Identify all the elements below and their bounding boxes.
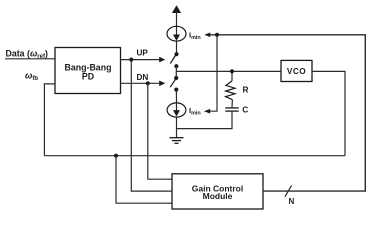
- junction: S2 bottom terminal: [174, 88, 178, 92]
- supply arrow (to VDD): [172, 5, 181, 26]
- block VCO: [281, 60, 312, 81]
- current source I_min (top): [167, 26, 186, 41]
- wire: S1 to S2: [175, 66, 177, 78]
- wire: DN signal with arrowhead: [121, 81, 166, 87]
- label UP: [137, 48, 149, 57]
- junction: S2 top terminal: [174, 76, 178, 80]
- wire: feedback branch into GCM: [116, 156, 172, 204]
- wire: feedback to PD input (left side): [44, 84, 55, 156]
- wire: control branch to bottom current source: [204, 35, 217, 114]
- svg-text:C: C: [242, 105, 248, 115]
- wire: R to C: [231, 100, 233, 108]
- wire: bottom current source to ground: [176, 117, 178, 138]
- current source I_min (bottom): [167, 103, 186, 117]
- wire: DN branch to Gain Control Module: [148, 83, 172, 179]
- ground: [170, 138, 184, 144]
- wire: node to resistor R: [231, 71, 233, 81]
- label: omega_fb feedback input: [25, 70, 38, 82]
- svg-text:VCO: VCO: [287, 66, 306, 76]
- block Bang-Bang PD: [55, 48, 121, 94]
- svg-text:Imin: Imin: [189, 106, 201, 116]
- svg-text:R: R: [243, 85, 249, 95]
- switch S2 (DN) blade: [170, 79, 175, 87]
- junction: feedback tap to GCM: [114, 154, 118, 158]
- block Gain Control Module: [172, 174, 263, 209]
- svg-text:Imin: Imin: [189, 31, 201, 41]
- junction: UP branch node: [129, 58, 133, 62]
- wire: N-bit control bus (GCM to current sources): [204, 33, 365, 192]
- svg-text:DN: DN: [137, 73, 149, 82]
- resistor R: [226, 81, 235, 100]
- wire: S2 to bottom current source: [175, 90, 177, 103]
- svg-text:ωfb: ωfb: [25, 70, 38, 82]
- wire: top current source to switch S1: [176, 41, 178, 54]
- junction: loop filter tap: [230, 69, 234, 73]
- label DN: [137, 73, 149, 82]
- label C: [242, 105, 248, 115]
- label: Data (omega_ref): [6, 48, 48, 60]
- wire: VCO output down right side: [312, 71, 345, 155]
- wire: C to ground rail: [177, 111, 233, 128]
- label R: [243, 85, 249, 95]
- label I_min (bottom): [189, 106, 201, 116]
- wire: UP signal with arrowhead: [121, 57, 166, 63]
- svg-text:UP: UP: [137, 48, 149, 57]
- switch S1 (UP) blade: [170, 55, 175, 64]
- svg-text:PD: PD: [82, 71, 94, 81]
- wire: UP branch to Gain Control Module: [131, 60, 172, 192]
- junction: control branch node: [215, 33, 219, 37]
- wire: Data input: [5, 58, 55, 60]
- svg-text:Data (ωref): Data (ωref): [6, 48, 48, 60]
- junction: DN branch node: [146, 81, 150, 85]
- wire: feedback horizontal (VCO to PD and GCM): [44, 155, 345, 157]
- label I_min (top): [189, 31, 201, 41]
- capacitor C: [225, 108, 238, 111]
- wire: charge-pump output node to VCO: [176, 70, 281, 72]
- junction: S1 top terminal: [174, 52, 178, 56]
- bus width slash: [285, 185, 292, 196]
- svg-text:N: N: [289, 197, 295, 206]
- label N: [289, 197, 295, 206]
- svg-text:Module: Module: [203, 191, 233, 201]
- junction: S1 bottom terminal: [174, 64, 178, 68]
